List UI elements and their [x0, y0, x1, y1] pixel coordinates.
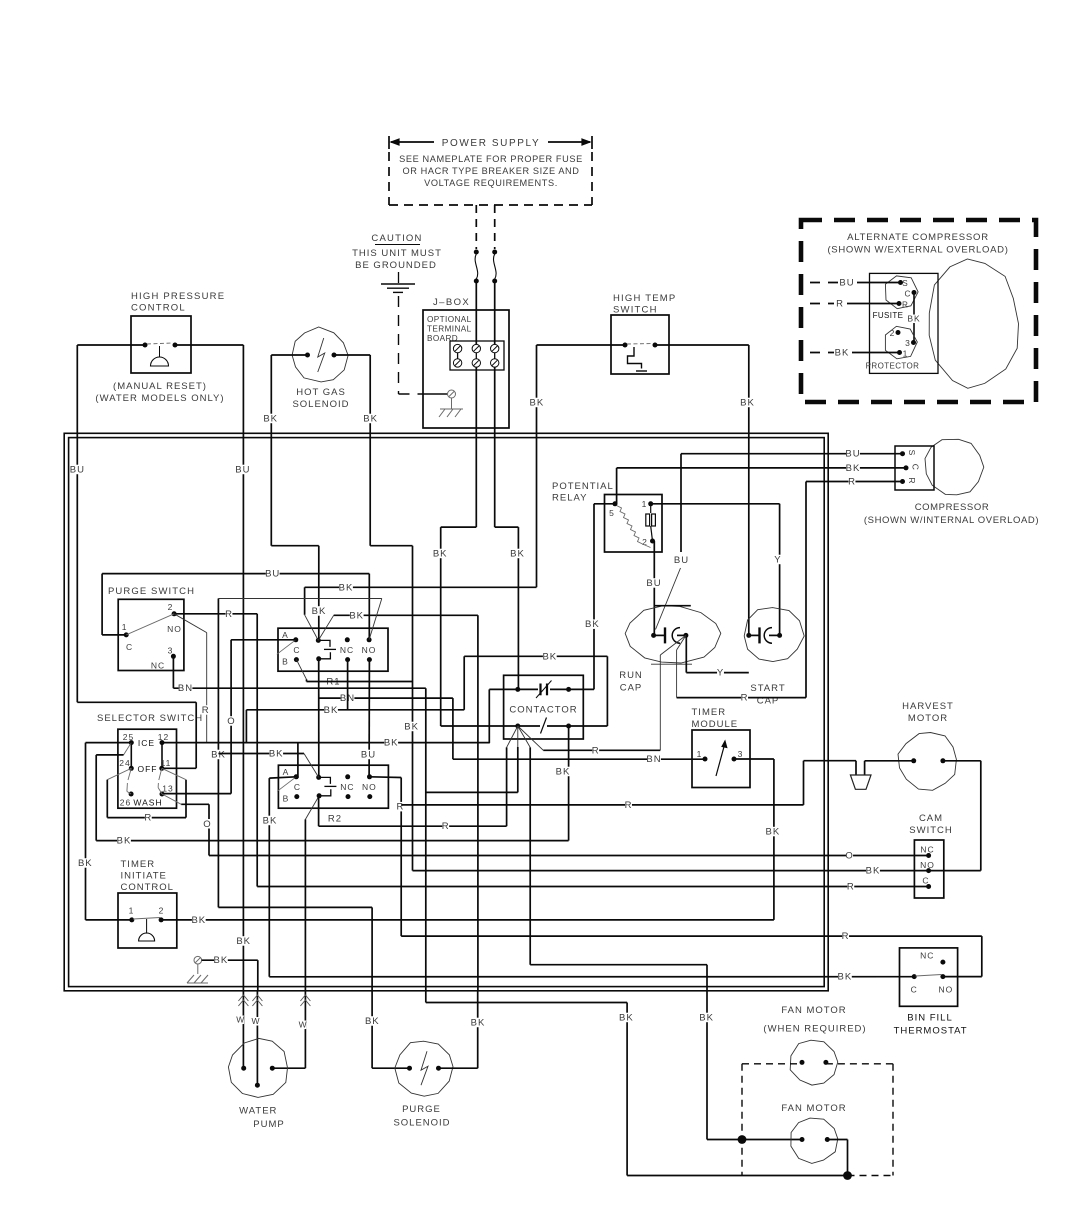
svg-text:R: R — [225, 609, 233, 620]
start capacitor — [744, 608, 804, 707]
wire lower fan right — [627, 1140, 847, 1176]
svg-text:BK: BK — [838, 972, 853, 983]
wire R1 Cb to R2 C BN — [319, 659, 453, 778]
svg-text:BK: BK — [866, 866, 881, 877]
svg-text:C: C — [911, 985, 918, 995]
svg-text:BK: BK — [312, 606, 327, 617]
wire selector12 R — [161, 742, 163, 744]
wire jbox L1 to contactor — [433, 527, 518, 726]
fan motor upper — [763, 1005, 866, 1085]
svg-text:FUSITE: FUSITE — [873, 311, 904, 320]
high temp switch — [611, 293, 676, 374]
cam follower — [850, 775, 871, 789]
svg-text:S: S — [902, 279, 908, 288]
svg-text:R: R — [592, 745, 600, 756]
svg-text:R: R — [848, 477, 856, 488]
svg-text:BN: BN — [646, 754, 661, 765]
run capacitor — [619, 606, 721, 694]
svg-text:1: 1 — [129, 906, 135, 916]
wire dashed ground run to j-box — [399, 296, 425, 394]
wire jbox L2 to contactor — [495, 527, 525, 689]
wire R1 NOt thin feed — [211, 599, 382, 908]
wire W3 water pump — [272, 991, 310, 1068]
wire fan feed west BK — [426, 688, 634, 1175]
optional terminal board — [450, 341, 504, 370]
wire fusite C to protector 3 BK — [907, 293, 920, 343]
svg-text:OPTIONAL: OPTIONAL — [427, 315, 472, 324]
high pressure control — [95, 291, 225, 404]
wire timer initiate 1 — [86, 919, 132, 921]
svg-text:CONTACTOR: CONTACTOR — [509, 705, 577, 716]
svg-text:POWER SUPPLY: POWER SUPPLY — [442, 138, 540, 149]
power supply box — [389, 136, 592, 205]
svg-text:BK: BK — [471, 1018, 486, 1029]
svg-text:BK: BK — [740, 398, 755, 409]
svg-text:BU: BU — [70, 465, 85, 476]
lead BU to fusite S — [810, 278, 901, 289]
svg-text:W: W — [251, 1016, 260, 1026]
svg-text:R: R — [741, 693, 749, 704]
wire high temp right BK — [655, 345, 755, 635]
wire R1 B to x412 — [296, 660, 412, 682]
svg-text:R: R — [836, 299, 844, 310]
alternate compressor dashed enclosure — [801, 220, 1036, 402]
wire selector blade BK rail — [96, 755, 568, 847]
timer module — [692, 707, 751, 788]
wire contactor BL to run cap R — [518, 726, 661, 756]
svg-text:O: O — [845, 851, 853, 862]
wire R2 C feed BK — [218, 749, 318, 778]
svg-text:BK: BK — [339, 582, 354, 593]
svg-text:C: C — [910, 464, 920, 471]
svg-text:R: R — [842, 931, 850, 942]
svg-text:ALTERNATE COMPRESSOR: ALTERNATE COMPRESSOR — [847, 232, 989, 243]
svg-text:W: W — [299, 1020, 308, 1030]
timer initiate control — [118, 859, 177, 948]
svg-text:BK: BK — [766, 827, 781, 838]
svg-text:BK: BK — [846, 463, 861, 474]
wire purge1 to BU rail — [102, 569, 369, 640]
alternate compressor body — [929, 259, 1018, 388]
alternate compressor terminal box — [870, 273, 939, 373]
svg-text:CAM: CAM — [919, 813, 943, 824]
wire BN to timer1 — [453, 754, 705, 765]
water pump — [228, 1038, 287, 1130]
wire BU leader to run cap — [656, 555, 690, 630]
svg-text:BK: BK — [263, 816, 278, 827]
svg-text:BIN FILL: BIN FILL — [907, 1013, 953, 1024]
svg-text:Y: Y — [774, 555, 781, 566]
svg-text:5: 5 — [609, 508, 615, 518]
svg-text:25: 25 — [123, 732, 134, 742]
svg-text:SOLENOID: SOLENOID — [393, 1118, 450, 1129]
svg-text:BK: BK — [433, 549, 448, 560]
svg-text:R: R — [442, 821, 450, 832]
svg-text:R: R — [902, 301, 909, 310]
harvest motor — [898, 701, 956, 790]
svg-text:1: 1 — [903, 349, 909, 359]
wire run cap to start cap Y — [686, 635, 749, 678]
wire contactor TL loop BK — [464, 651, 607, 743]
wire cam NO BK — [413, 866, 929, 877]
svg-text:TIMER: TIMER — [121, 859, 156, 870]
ground lug bottom — [187, 956, 208, 983]
svg-text:BK: BK — [556, 767, 571, 778]
svg-text:2: 2 — [159, 906, 165, 916]
svg-text:BK: BK — [117, 836, 132, 847]
svg-text:3: 3 — [738, 749, 744, 759]
j-box enclosure — [423, 297, 509, 428]
svg-text:HOT GAS: HOT GAS — [296, 387, 346, 398]
svg-text:13: 13 — [162, 784, 173, 794]
wire solenoid right BK — [334, 355, 419, 871]
protector terminals — [866, 326, 920, 370]
svg-text:BK: BK — [619, 1013, 634, 1024]
svg-text:MODULE: MODULE — [692, 719, 739, 730]
svg-text:BE GROUNDED: BE GROUNDED — [355, 260, 437, 271]
wire compressor C lead BK — [617, 463, 906, 504]
svg-text:BK: BK — [191, 915, 206, 926]
wire R1 A to selector13 O — [162, 640, 296, 794]
svg-text:TERMINAL: TERMINAL — [427, 325, 472, 334]
svg-text:COMPRESSOR: COMPRESSOR — [915, 502, 990, 513]
wire rail y743 BK — [162, 689, 490, 778]
wire cam C R — [257, 882, 928, 893]
main enclosure double border — [64, 433, 828, 991]
svg-text:BK: BK — [263, 414, 278, 425]
caution note — [352, 233, 442, 292]
svg-text:POTENTIAL: POTENTIAL — [552, 481, 614, 492]
svg-text:BK: BK — [363, 414, 378, 425]
wire rail to bin fill C BK — [269, 965, 914, 983]
svg-text:FAN MOTOR: FAN MOTOR — [781, 1005, 846, 1016]
svg-text:FAN MOTOR: FAN MOTOR — [781, 1103, 846, 1114]
wire contactor TR to relay5 — [569, 688, 594, 690]
svg-text:BK: BK — [699, 1013, 714, 1024]
svg-text:BU: BU — [845, 449, 860, 460]
svg-text:THIS UNIT MUST: THIS UNIT MUST — [352, 248, 442, 259]
svg-text:R: R — [625, 800, 633, 811]
wire R1 C feeds BK — [305, 582, 537, 640]
wire W2 water pump — [251, 991, 262, 1085]
svg-text:R: R — [907, 477, 917, 484]
svg-text:CAUTION: CAUTION — [371, 233, 422, 244]
svg-text:C: C — [905, 290, 912, 299]
svg-text:BK: BK — [510, 549, 525, 560]
wire harvest right — [929, 761, 981, 871]
wire purge2 R leader south — [174, 614, 210, 743]
svg-text:C: C — [294, 782, 301, 792]
wire relay2 to run cap BU — [646, 541, 661, 635]
svg-text:NC: NC — [340, 645, 354, 655]
svg-text:R: R — [396, 802, 404, 813]
svg-text:(MANUAL RESET): (MANUAL RESET) — [113, 381, 207, 392]
svg-text:BK: BK — [269, 749, 284, 760]
wire fan feed east BK — [699, 977, 802, 1140]
svg-text:BK: BK — [835, 348, 850, 359]
wire rail R to bin fill NO — [401, 931, 982, 977]
svg-text:BK: BK — [365, 1016, 380, 1027]
svg-text:A: A — [282, 630, 289, 640]
wire R2 NO east R — [319, 777, 507, 936]
svg-text:C: C — [293, 645, 300, 655]
svg-text:BK: BK — [78, 858, 93, 869]
svg-text:B: B — [283, 794, 290, 804]
wire run cap leader to contactor R — [660, 635, 686, 750]
svg-text:BK: BK — [324, 705, 339, 716]
svg-text:RUN: RUN — [619, 670, 643, 681]
wire contactor BL leader east — [518, 726, 530, 965]
svg-text:R: R — [144, 813, 152, 824]
svg-text:HIGH PRESSURE: HIGH PRESSURE — [131, 291, 225, 302]
fan motor lower — [781, 1103, 846, 1163]
contactor — [504, 675, 584, 739]
svg-text:HIGH TEMP: HIGH TEMP — [613, 293, 676, 304]
svg-text:Y: Y — [717, 668, 724, 679]
svg-text:INITIATE: INITIATE — [121, 871, 167, 882]
wire selector25 BK — [78, 743, 131, 920]
bin fill thermostat — [894, 948, 968, 1037]
svg-text:OFF: OFF — [138, 764, 158, 774]
svg-text:CONTROL: CONTROL — [121, 882, 174, 893]
hot gas solenoid — [292, 327, 349, 410]
wire hpc left lead BU — [70, 345, 145, 702]
svg-text:24: 24 — [119, 758, 130, 768]
wire R1 NCb BK — [246, 660, 464, 743]
lead R to fusite R — [810, 299, 899, 310]
svg-text:NC: NC — [920, 845, 934, 855]
svg-text:THERMOSTAT: THERMOSTAT — [894, 1026, 968, 1037]
svg-text:2: 2 — [890, 328, 896, 338]
wire run cap leader to compressor R — [677, 635, 806, 703]
lead BK to protector 1 — [810, 348, 900, 359]
svg-text:(SHOWN W/EXTERNAL OVERLOAD): (SHOWN W/EXTERNAL OVERLOAD) — [827, 245, 1008, 256]
potential relay — [552, 481, 662, 552]
wire selector13 leader O — [162, 794, 929, 862]
svg-text:NC: NC — [151, 660, 165, 670]
wire contactor BL leader mid — [517, 726, 519, 792]
wire solenoid left BK — [263, 355, 326, 640]
svg-text:BN: BN — [178, 683, 193, 694]
wire L2 through terminal board — [494, 353, 496, 527]
svg-text:START: START — [750, 683, 785, 694]
svg-text:BU: BU — [265, 569, 280, 580]
svg-text:ICE: ICE — [138, 738, 155, 748]
wire contactor BR down BK — [556, 726, 571, 841]
svg-text:B: B — [282, 657, 289, 667]
svg-text:CAP: CAP — [620, 683, 643, 694]
svg-text:SEE NAMEPLATE FOR PROPER FUSE: SEE NAMEPLATE FOR PROPER FUSE — [399, 154, 583, 164]
j-box ground lug — [424, 390, 463, 417]
cam switch — [909, 813, 952, 898]
svg-text:PROTECTOR: PROTECTOR — [866, 362, 920, 371]
wire timer initiate 2 BK — [161, 915, 774, 926]
svg-text:MOTOR: MOTOR — [908, 713, 948, 724]
svg-text:TIMER: TIMER — [692, 707, 727, 718]
wire high temp left — [530, 345, 625, 587]
wire purge solenoid right BK — [439, 991, 486, 1068]
wire relay1 to start cap Y — [651, 504, 782, 636]
svg-text:BU: BU — [361, 750, 376, 761]
svg-text:A: A — [283, 767, 290, 777]
svg-text:(SHOWN W/INTERNAL OVERLOAD): (SHOWN W/INTERNAL OVERLOAD) — [864, 515, 1039, 526]
svg-text:BK: BK — [349, 610, 364, 621]
svg-text:J–BOX: J–BOX — [433, 297, 470, 308]
svg-text:BK: BK — [384, 738, 399, 749]
relay R1 — [277, 628, 388, 687]
svg-text:1: 1 — [122, 622, 128, 632]
svg-text:26: 26 — [120, 798, 131, 808]
svg-text:12: 12 — [158, 732, 169, 742]
svg-text:SOLENOID: SOLENOID — [292, 399, 349, 410]
svg-text:SWITCH: SWITCH — [909, 825, 952, 836]
svg-text:PUMP: PUMP — [253, 1119, 284, 1130]
svg-text:3: 3 — [168, 646, 174, 656]
wire purge3 BN — [173, 656, 425, 694]
svg-text:NC: NC — [920, 951, 934, 961]
wire selector 24-11 R jumper — [107, 768, 186, 823]
svg-text:C: C — [922, 876, 929, 886]
compressor — [864, 439, 1039, 526]
svg-text:HARVEST: HARVEST — [902, 701, 954, 712]
svg-text:11: 11 — [161, 758, 172, 768]
svg-text:(WATER MODELS ONLY): (WATER MODELS ONLY) — [95, 393, 224, 404]
wire rail x218 to purge solenoid — [218, 907, 409, 1068]
svg-text:NO: NO — [362, 782, 377, 792]
svg-text:BU: BU — [674, 555, 689, 566]
wire selector11 BU — [77, 702, 196, 768]
wire R2 Cb leader to W — [305, 796, 319, 991]
svg-text:O: O — [203, 819, 211, 830]
svg-text:C: C — [126, 642, 133, 652]
svg-text:WATER: WATER — [239, 1106, 277, 1117]
svg-text:R: R — [847, 882, 855, 893]
svg-text:BK: BK — [530, 398, 545, 409]
wire L1 through terminal board — [475, 353, 477, 527]
svg-text:VOLTAGE REQUIREMENTS.: VOLTAGE REQUIREMENTS. — [424, 178, 558, 188]
svg-text:S: S — [907, 450, 917, 457]
svg-text:BU: BU — [839, 278, 854, 289]
wire hpc right lead — [175, 345, 251, 991]
svg-text:BK: BK — [404, 722, 419, 733]
wire timer3 BK — [734, 759, 780, 920]
wire W1 water pump — [236, 991, 248, 1068]
wire R rail to harvest — [401, 761, 914, 811]
svg-text:PURGE SWITCH: PURGE SWITCH — [108, 586, 195, 597]
svg-text:BU: BU — [646, 578, 661, 589]
svg-text:NO: NO — [920, 860, 935, 870]
svg-text:BK: BK — [907, 314, 920, 324]
wire R2 A west BK — [263, 777, 297, 977]
svg-text:BK: BK — [542, 651, 557, 662]
svg-text:BK: BK — [214, 955, 229, 966]
wire contactor BL leader west — [507, 726, 518, 826]
wire purge2 R east — [174, 609, 257, 887]
svg-text:WASH: WASH — [133, 798, 162, 808]
svg-text:OR HACR TYPE BREAKER SIZE AND: OR HACR TYPE BREAKER SIZE AND — [402, 166, 579, 176]
wire R1 C leader east BK — [318, 610, 478, 991]
svg-text:NO: NO — [362, 645, 377, 655]
svg-text:CONTROL: CONTROL — [131, 303, 186, 314]
svg-text:3: 3 — [905, 338, 911, 348]
power supply leads with fuse switches — [474, 205, 497, 348]
svg-text:SELECTOR SWITCH: SELECTOR SWITCH — [97, 713, 203, 724]
svg-text:SWITCH: SWITCH — [613, 305, 658, 316]
svg-text:NC: NC — [340, 782, 354, 792]
svg-text:2: 2 — [168, 602, 174, 612]
svg-text:RELAY: RELAY — [552, 493, 587, 504]
svg-text:NO: NO — [939, 985, 954, 995]
junction dot fan right — [843, 1171, 852, 1180]
svg-text:W: W — [236, 1015, 245, 1025]
svg-text:PURGE: PURGE — [402, 1104, 441, 1115]
relay R2 — [277, 765, 388, 824]
wire ground BK to pump — [202, 955, 258, 991]
wire relay5 to contactor BK — [585, 504, 615, 690]
svg-text:BK: BK — [236, 936, 251, 947]
svg-text:NO: NO — [167, 624, 182, 634]
svg-text:R2: R2 — [328, 814, 342, 825]
svg-text:O: O — [227, 716, 235, 727]
svg-text:1: 1 — [697, 749, 703, 759]
svg-text:BU: BU — [235, 465, 250, 476]
wire R1 NOb to R2 NO BU — [361, 660, 376, 778]
svg-text:(WHEN REQUIRED): (WHEN REQUIRED) — [763, 1024, 866, 1035]
svg-text:BK: BK — [585, 619, 600, 630]
svg-text:1: 1 — [642, 499, 648, 509]
fusite terminals — [873, 276, 919, 320]
wire compressor R lead R — [806, 477, 903, 698]
purge solenoid — [393, 1041, 453, 1128]
wire compressor S lead BU — [681, 449, 903, 552]
purge switch — [108, 586, 195, 671]
svg-text:BK: BK — [211, 750, 226, 761]
selector switch — [97, 713, 203, 808]
fan dashed option box — [742, 1064, 893, 1176]
junction dot fan left — [738, 1135, 747, 1144]
